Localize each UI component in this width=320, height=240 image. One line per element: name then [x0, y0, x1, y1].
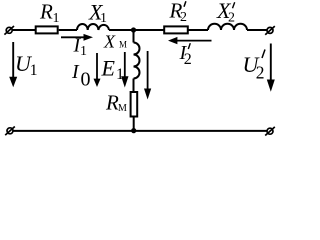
svg-text:1: 1 — [80, 44, 87, 59]
svg-text:M: M — [119, 40, 127, 50]
arrow I0 — [94, 53, 101, 87]
inductor Xm (vertical) — [134, 43, 140, 79]
svg-text:2: 2 — [228, 10, 235, 25]
wire bottom — [13, 130, 267, 132]
wire: node A to R2' — [134, 29, 165, 31]
wire: X1 to node A — [109, 29, 134, 31]
arrow I2' — [168, 37, 212, 44]
wire: X2' to terminal top-right — [247, 29, 267, 31]
svg-text:2: 2 — [184, 51, 192, 68]
svg-text:1: 1 — [30, 62, 38, 79]
wire: R2' to X2' — [189, 29, 209, 31]
svg-text:2: 2 — [256, 62, 265, 82]
inductor X2' — [208, 24, 247, 30]
terminal bottom-right — [265, 127, 275, 136]
terminal top-right — [265, 26, 275, 35]
svg-text:R: R — [39, 0, 53, 24]
arrow E1 — [121, 52, 128, 88]
resistor R2' — [164, 26, 188, 33]
wire top: terminal to R1 — [12, 29, 35, 31]
svg-text:M: M — [118, 103, 127, 114]
resistor R1 — [36, 26, 58, 33]
arrow U1 — [9, 42, 17, 87]
inductor X1 — [77, 24, 109, 30]
terminal bottom-left — [5, 127, 15, 136]
terminal top-left — [4, 26, 14, 35]
svg-text:1: 1 — [100, 11, 107, 26]
node B (bottom junction dot) — [131, 128, 136, 133]
wire: Rm to bottom node — [133, 118, 135, 131]
svg-text:2: 2 — [180, 10, 187, 25]
wire: R1 to X1 — [59, 29, 77, 31]
svg-text:I: I — [71, 61, 80, 83]
svg-text:E: E — [101, 56, 116, 81]
arrow flux (unlabeled, between branch and I2') — [144, 51, 151, 100]
node A (top junction dot) — [131, 27, 136, 32]
svg-text:R: R — [105, 91, 119, 115]
resistor Rm (vertical) — [131, 92, 138, 117]
svg-text:0: 0 — [81, 68, 91, 90]
svg-text:X: X — [103, 31, 116, 51]
svg-text:1: 1 — [116, 66, 124, 83]
arrow U2' — [267, 44, 275, 92]
svg-text:1: 1 — [53, 11, 60, 26]
arrow I1 — [61, 34, 93, 41]
wire: Xm to Rm — [133, 79, 135, 92]
wire: node A down to Xm coil — [133, 30, 135, 43]
